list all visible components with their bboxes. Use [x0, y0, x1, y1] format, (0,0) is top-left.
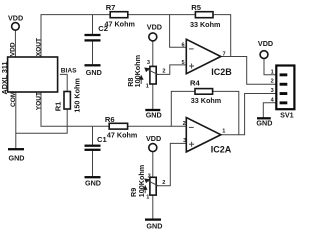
wire R7 right to R5 left	[128, 14, 196, 16]
svg-text:3: 3	[147, 60, 150, 66]
svg-text:33 Kohm: 33 Kohm	[190, 20, 220, 29]
wire C1 tap	[92, 126, 94, 145]
wire YOUT to R6	[41, 92, 109, 126]
svg-text:GND: GND	[9, 154, 25, 163]
connector SV1	[271, 66, 295, 120]
svg-text:COM: COM	[10, 91, 17, 107]
svg-text:1: 1	[146, 83, 149, 89]
svg-text:1: 1	[222, 129, 225, 135]
wire C2 to ground	[92, 42, 94, 65]
wire IC2B output to SV1 pin 2	[221, 57, 276, 85]
resistor R5	[190, 3, 220, 29]
svg-text:VDD: VDD	[10, 42, 17, 56]
svg-text:VDD: VDD	[8, 14, 23, 23]
wire C2 tap	[92, 15, 94, 34]
svg-text:2: 2	[183, 121, 186, 127]
svg-text:3: 3	[148, 173, 151, 179]
svg-text:R7: R7	[106, 3, 116, 12]
wire R8 wiper to IC2B pin 5	[156, 65, 186, 75]
svg-text:BIAS: BIAS	[61, 68, 77, 75]
VDD above SV1	[258, 39, 273, 58]
svg-text:YOUT: YOUT	[35, 92, 42, 110]
resistor R4	[190, 79, 221, 105]
svg-text:R4: R4	[190, 79, 200, 88]
wire R6 to IC2A pin 2	[128, 125, 187, 127]
svg-text:SV1: SV1	[280, 110, 294, 119]
svg-text:1: 1	[271, 69, 274, 75]
wire VDD to R8	[152, 41, 154, 67]
svg-text:100Kohm: 100Kohm	[133, 55, 142, 87]
wire R4 right to IC2A output	[213, 91, 239, 134]
svg-text:GND: GND	[146, 221, 162, 230]
wire R9 to ground	[152, 195, 154, 219]
svg-text:VDD: VDD	[147, 23, 162, 32]
svg-text:R6: R6	[105, 115, 115, 124]
ground under C1	[85, 177, 101, 187]
wire BIAS to R1 top	[60, 74, 67, 91]
wire COM to ground	[15, 92, 17, 148]
ground under R9	[145, 220, 162, 231]
svg-text:2: 2	[162, 68, 165, 74]
svg-text:GND: GND	[256, 119, 272, 128]
svg-text:VDD: VDD	[258, 39, 273, 48]
ground under R8	[145, 110, 161, 120]
svg-text:150 Kohm: 150 Kohm	[73, 78, 82, 112]
svg-text:2: 2	[271, 79, 274, 85]
capacitor C1	[85, 135, 108, 150]
ground under COM	[8, 149, 24, 162]
svg-text:47 Kohm: 47 Kohm	[105, 20, 135, 29]
VDD above R8	[147, 23, 162, 41]
svg-text:3: 3	[183, 138, 186, 144]
svg-text:IC2B: IC2B	[211, 67, 232, 77]
wire IC2A output to SV1 pin 3	[221, 94, 276, 135]
svg-text:47 Kohm: 47 Kohm	[107, 131, 137, 140]
wire VDD to SV1 pin 1	[264, 59, 276, 75]
wire C1 to ground	[92, 151, 94, 176]
resistor R1	[64, 92, 70, 110]
ground under C2	[85, 65, 102, 77]
svg-text:1: 1	[146, 195, 149, 201]
svg-text:R5: R5	[191, 3, 201, 12]
svg-text:VDD: VDD	[146, 134, 161, 143]
VDD above R9	[146, 134, 161, 151]
svg-text:7: 7	[223, 52, 226, 58]
wire XOUT to R7 top run	[41, 15, 110, 57]
svg-text:R1: R1	[54, 101, 63, 111]
svg-text:33 Kohm: 33 Kohm	[191, 96, 221, 105]
svg-text:5: 5	[181, 60, 184, 66]
wire R8 to ground	[152, 84, 154, 109]
wire VDD to IC	[14, 30, 16, 57]
trimmer R9	[129, 165, 165, 201]
resistor R6	[105, 115, 137, 140]
ground under SV1	[256, 118, 272, 127]
svg-text:XOUT: XOUT	[35, 38, 42, 56]
wire R4 left loop to pin 2 node	[171, 91, 195, 126]
svg-text:100Kohm: 100Kohm	[137, 165, 146, 197]
svg-text:GND: GND	[85, 178, 101, 187]
svg-text:3: 3	[271, 88, 274, 94]
wire ground rail to R1 bottom	[16, 109, 67, 133]
wire R5 right to IC2B output	[213, 15, 231, 57]
IC U1 ADXL311	[8, 57, 58, 92]
op-amp IC2B	[181, 39, 232, 77]
svg-text:6: 6	[181, 43, 184, 49]
svg-text:IC2A: IC2A	[211, 144, 232, 154]
svg-text:GND: GND	[146, 111, 162, 120]
resistor R7	[105, 3, 135, 28]
op-amp IC2A	[183, 118, 232, 155]
trimmer R8	[126, 55, 166, 89]
capacitor C2	[85, 24, 109, 40]
svg-text:ADXL 311: ADXL 311	[0, 61, 9, 94]
wire SV1 pin 4 to ground	[263, 103, 276, 118]
VDD supply top-left	[8, 14, 23, 31]
svg-text:2: 2	[162, 180, 165, 186]
wire node to IC2B pin 6	[170, 15, 187, 48]
wire R9 wiper to IC2A pin 3	[156, 143, 186, 185]
wire VDD to R9	[152, 152, 154, 178]
svg-text:GND: GND	[86, 68, 102, 77]
